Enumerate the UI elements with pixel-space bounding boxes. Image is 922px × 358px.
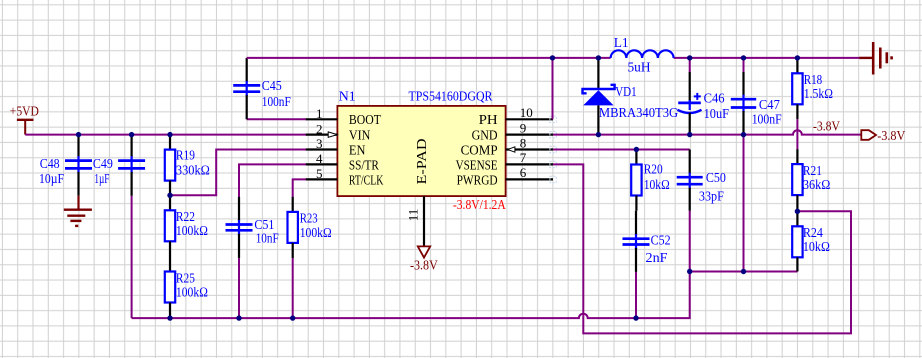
port -3.8V — [861, 129, 905, 144]
svg-text:100kΩ: 100kΩ — [300, 226, 332, 241]
svg-text:3: 3 — [316, 136, 323, 151]
resistor R20 — [631, 150, 670, 211]
resistor R25 — [165, 257, 208, 319]
svg-text:C49: C49 — [93, 157, 113, 172]
svg-text:-3.8V: -3.8V — [813, 120, 840, 135]
junction R23/bus — [290, 315, 295, 320]
svg-text:BOOT: BOOT — [349, 113, 381, 128]
wire top rail right segment (L1 to ground) — [674, 57, 860, 59]
svg-text:C48: C48 — [40, 157, 60, 172]
svg-text:+5VD: +5VD — [10, 105, 39, 120]
svg-text:TPS54160DGQR: TPS54160DGQR — [409, 90, 494, 105]
svg-text:PWRGD: PWRGD — [457, 173, 498, 188]
junction R19/rail — [167, 132, 172, 137]
wire SS/TR to C51 — [239, 164, 307, 197]
power symbol +5VD — [10, 105, 39, 135]
wire top rail left segment (C45 to L1) — [247, 57, 611, 59]
pin 9 GND — [472, 120, 557, 143]
pin 4 SS/TR — [306, 151, 380, 173]
junction C47/GND rail — [741, 132, 746, 137]
svg-text:10nF: 10nF — [256, 232, 279, 247]
capacitor C45 — [233, 58, 260, 119]
svg-text:5: 5 — [316, 166, 323, 181]
svg-text:MBRA340T3G: MBRA340T3G — [599, 106, 678, 121]
svg-text:C50: C50 — [706, 171, 726, 186]
junction C47col/node — [741, 269, 746, 274]
pin 6 PWRGD — [457, 165, 557, 188]
svg-text:E-PAD: E-PAD — [415, 139, 430, 185]
svg-text:L1: L1 — [614, 36, 629, 51]
resistor R23 — [288, 197, 332, 258]
svg-text:-3.8V: -3.8V — [877, 129, 905, 144]
junction C49/rail — [129, 132, 134, 137]
svg-text:1µF: 1µF — [94, 172, 109, 187]
svg-text:C52: C52 — [651, 234, 671, 249]
svg-text:11: 11 — [406, 209, 421, 222]
pin 1 BOOT — [306, 106, 381, 128]
svg-text:100kΩ: 100kΩ — [176, 224, 208, 239]
svg-text:R21: R21 — [803, 164, 822, 179]
svg-text:VSENSE: VSENSE — [456, 158, 498, 173]
svg-text:10µF: 10µF — [39, 172, 64, 187]
junction PH riser/top rail — [550, 55, 555, 60]
svg-text:R23: R23 — [300, 212, 318, 227]
resistor R21 — [792, 149, 830, 211]
junction VD1/top rail — [596, 55, 601, 60]
junction C46/top rail — [687, 55, 692, 60]
junction VD1/GND rail — [596, 132, 601, 137]
inductor L1 — [611, 36, 674, 76]
junction C48/rail — [76, 132, 81, 137]
wire C52 to bus — [635, 272, 637, 318]
svg-text:7: 7 — [520, 150, 527, 165]
svg-text:2nF: 2nF — [646, 251, 668, 266]
svg-text:10: 10 — [520, 105, 533, 120]
wire R18 to R21 — [796, 119, 798, 149]
svg-text:36kΩ: 36kΩ — [803, 178, 831, 193]
power symbol -3.8V at E-PAD — [410, 246, 438, 273]
svg-text:C45: C45 — [262, 79, 282, 94]
svg-text:R20: R20 — [644, 163, 663, 178]
svg-text:C51: C51 — [254, 218, 274, 233]
pin 5 RT/CLK — [306, 166, 384, 188]
pin 11 E-PAD — [406, 196, 424, 246]
capacitor C47 — [731, 72, 756, 135]
svg-text:RT/CLK: RT/CLK — [349, 173, 384, 188]
svg-text:R22: R22 — [176, 210, 195, 225]
capacitor C50 — [677, 150, 703, 211]
capacitor C46 (polarized) — [677, 72, 701, 135]
junction R25/bus — [167, 315, 172, 320]
junction C51/bus — [236, 315, 241, 320]
wire R23 to bus — [292, 258, 294, 318]
svg-text:VIN: VIN — [349, 129, 371, 144]
wire BOOT to C45 — [247, 118, 307, 120]
junction EN/R19/R22 — [167, 193, 172, 198]
svg-text:C47: C47 — [759, 98, 780, 113]
pin 8 COMP — [461, 135, 557, 158]
svg-text:4: 4 — [316, 151, 323, 166]
wire C49 down to bus — [131, 196, 133, 318]
svg-text:33pF: 33pF — [699, 189, 724, 204]
wire PH riser — [552, 58, 554, 119]
wire node row to R24 — [690, 271, 798, 273]
svg-text:100nF: 100nF — [262, 95, 291, 110]
resistor R18 — [792, 58, 833, 119]
resistor R19 — [165, 135, 210, 196]
svg-text:6: 6 — [520, 165, 527, 180]
wire COMP to R20/C50 — [553, 149, 690, 151]
svg-text:R25: R25 — [176, 271, 195, 286]
capacitor C52 — [623, 211, 650, 272]
svg-text:2: 2 — [316, 121, 323, 136]
svg-text:N1: N1 — [339, 89, 356, 104]
junction C46/GND rail — [687, 132, 692, 137]
junction R21/R24 — [795, 209, 800, 214]
junction C50/node — [687, 269, 692, 274]
svg-text:1.5kΩ: 1.5kΩ — [804, 87, 833, 102]
svg-text:5uH: 5uH — [628, 60, 651, 75]
svg-text:8: 8 — [520, 135, 527, 150]
junction C47/top rail — [741, 55, 746, 60]
svg-text:COMP: COMP — [461, 143, 498, 158]
resistor R24 — [792, 211, 830, 271]
junction R18/top rail — [795, 55, 800, 60]
wire EN to R19/R22 junction — [170, 150, 307, 196]
ground at C48 — [64, 196, 92, 226]
capacitor C49 — [118, 135, 145, 196]
diode VD1 (schottky) — [583, 58, 615, 135]
pin 7 VSENSE — [456, 150, 557, 173]
wire bottom bus (with hop over VSENSE wire) — [132, 272, 690, 319]
svg-text:1: 1 — [316, 106, 323, 121]
junction R20/COMP — [634, 147, 639, 152]
wire VSENSE feedback loop — [553, 164, 851, 333]
svg-text:-3.8V: -3.8V — [410, 258, 438, 273]
svg-text:GND: GND — [472, 129, 498, 144]
pin 10 PH — [479, 105, 557, 128]
IC N1 TPS54160DGQR body — [337, 106, 505, 196]
capacitor C51 — [226, 197, 253, 258]
wire GND rail -3.8V (with hop over R18/R21 wire) — [553, 130, 861, 134]
svg-text:10kΩ: 10kΩ — [644, 178, 670, 193]
svg-text:SS/TR: SS/TR — [349, 158, 380, 173]
svg-text:10uF: 10uF — [704, 107, 730, 122]
wire C47 column down — [743, 135, 745, 272]
svg-text:PH: PH — [479, 113, 498, 128]
capacitor C48 — [65, 135, 92, 196]
svg-text:-3.8V/1.2A: -3.8V/1.2A — [453, 198, 507, 213]
pin 3 EN — [306, 136, 366, 158]
wire C47 stub — [743, 58, 745, 72]
wire C50 to node row — [689, 211, 691, 272]
svg-text:EN: EN — [349, 143, 366, 158]
svg-text:330kΩ: 330kΩ — [176, 164, 210, 179]
svg-text:C46: C46 — [704, 92, 725, 107]
svg-text:10kΩ: 10kΩ — [803, 240, 830, 255]
wire C51 to bus — [238, 258, 240, 318]
ground top right — [859, 42, 891, 75]
junction C52/bus — [633, 315, 638, 320]
svg-text:9: 9 — [520, 120, 527, 135]
svg-text:R19: R19 — [176, 149, 195, 164]
wire RT/CLK to R23 — [293, 179, 307, 197]
resistor R22 — [165, 195, 208, 256]
svg-text:100nF: 100nF — [752, 112, 782, 127]
pin 2 VIN — [306, 121, 371, 143]
svg-text:R24: R24 — [803, 226, 823, 241]
svg-text:R18: R18 — [804, 73, 823, 88]
wire C46 stub — [689, 58, 691, 72]
wire +5VD rail to VIN — [25, 134, 307, 136]
svg-text:100kΩ: 100kΩ — [176, 285, 208, 300]
svg-text:VD1: VD1 — [615, 85, 637, 100]
